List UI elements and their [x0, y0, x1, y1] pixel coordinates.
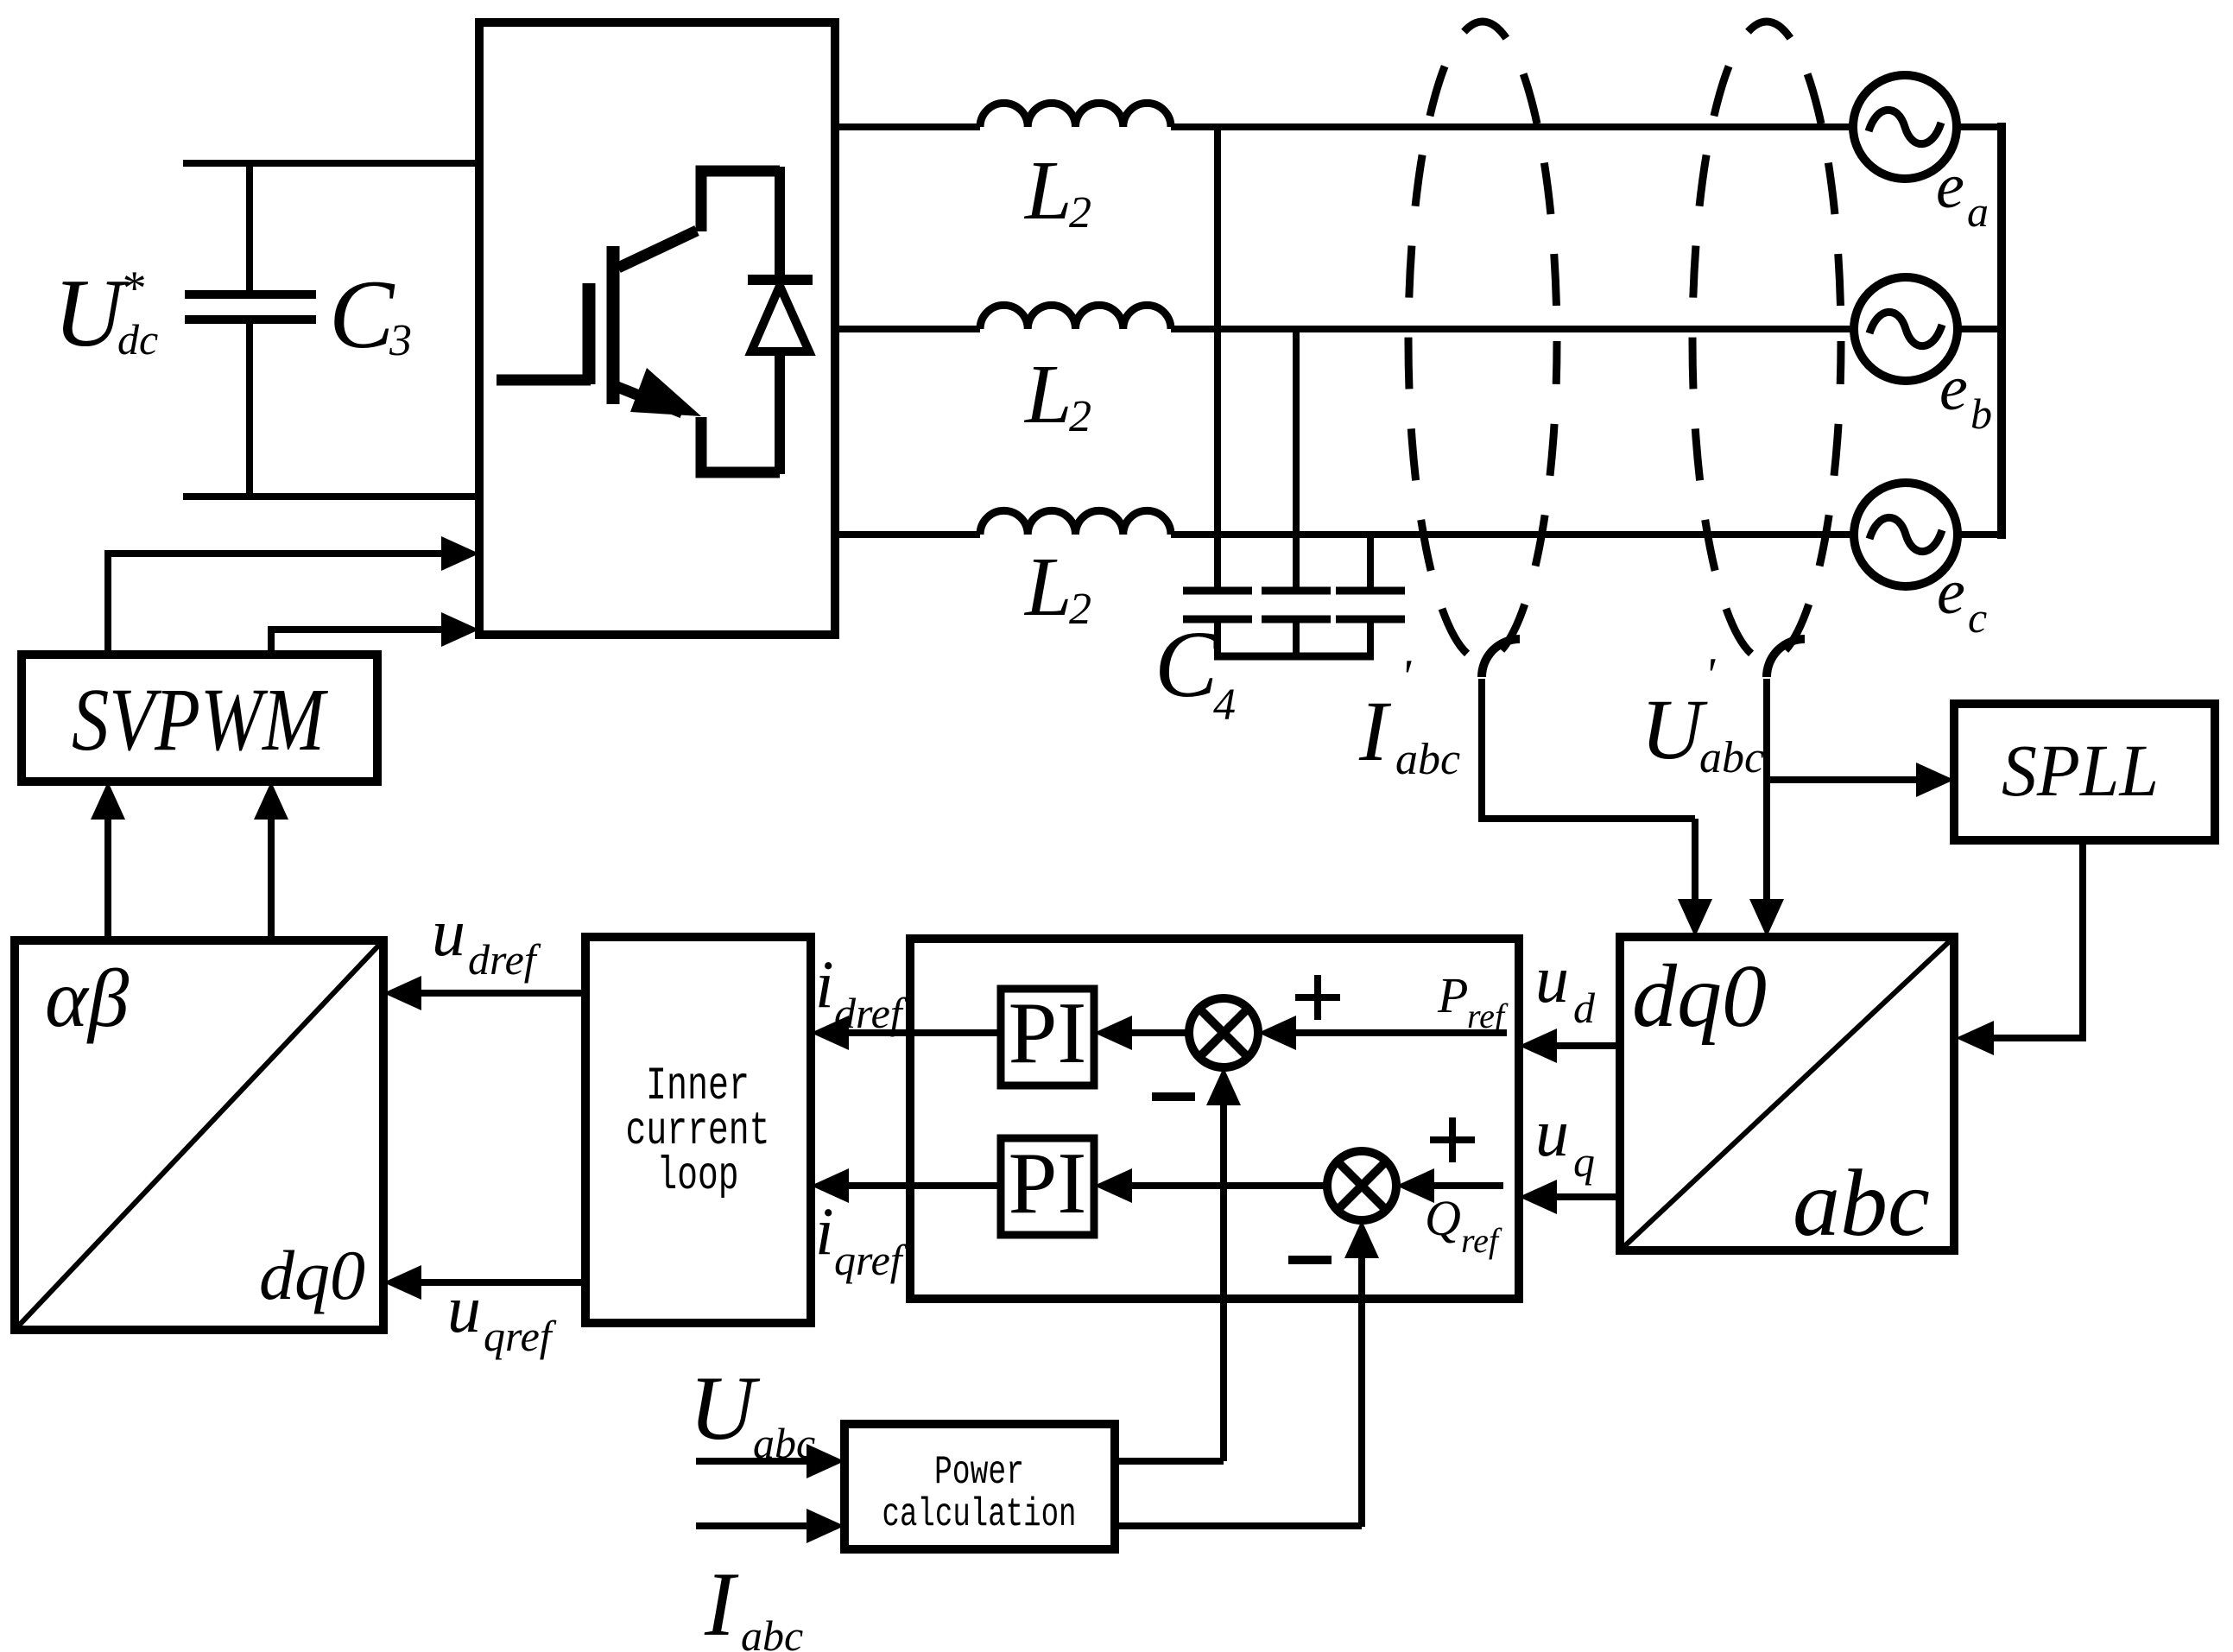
- svg-text:dref: dref: [834, 989, 908, 1037]
- plus sign S1: [1295, 994, 1340, 1001]
- capacitor C4 bank: [1183, 591, 1405, 656]
- wire P_ref to S1: [1268, 1029, 1507, 1036]
- inductor L2 phase A: [980, 103, 1171, 127]
- label i_dref: [815, 946, 908, 1037]
- svg-text:d: d: [1573, 984, 1596, 1032]
- wire C4 drop phase B: [1293, 329, 1300, 591]
- wire phase B: [835, 326, 980, 332]
- svg-text:2: 2: [1069, 188, 1091, 237]
- svg-text:SPLL: SPLL: [2002, 729, 2159, 812]
- svg-text:': ': [1401, 650, 1412, 704]
- label U_abc: [689, 1358, 815, 1467]
- inductor L2 phase B: [980, 305, 1171, 329]
- wire phase A: [835, 123, 980, 130]
- label i_qref: [815, 1193, 908, 1284]
- wire alpha-beta to SVPWM 2: [268, 790, 275, 940]
- svg-text:Q: Q: [1425, 1190, 1461, 1246]
- label C4: [1154, 611, 1236, 730]
- svg-text:': ': [1705, 649, 1716, 702]
- svg-text:abc: abc: [1395, 735, 1460, 784]
- svg-text:abc: abc: [753, 1419, 815, 1467]
- wire u_d: [1529, 1042, 1620, 1049]
- label e_b: [1939, 353, 1992, 438]
- svg-text:u: u: [1535, 1095, 1569, 1170]
- svg-text:P: P: [1437, 967, 1468, 1023]
- wire U_abc input: [696, 1458, 834, 1465]
- svg-text:q: q: [1573, 1137, 1595, 1186]
- svg-text:PI: PI: [1009, 984, 1087, 1082]
- svg-text:dq0: dq0: [259, 1236, 365, 1314]
- AC source e_c: [1854, 483, 1958, 586]
- minus sign S2: [1288, 1256, 1332, 1264]
- svg-text:4: 4: [1213, 680, 1236, 730]
- wire u_q: [1529, 1193, 1620, 1200]
- svg-text:abc: abc: [1699, 733, 1764, 782]
- svg-text:calculation: calculation: [882, 1492, 1077, 1537]
- svg-text:e: e: [1937, 557, 1965, 628]
- wire U'abc down arrow: [1763, 679, 1770, 927]
- svg-text:C: C: [1154, 611, 1219, 717]
- svg-text:*: *: [120, 262, 144, 315]
- outer power-loop box: [910, 939, 1519, 1299]
- transformer ellipse 2 (dashed): [1692, 22, 1841, 661]
- wire I'abc probe run: [1482, 679, 1695, 819]
- wire u_dref: [394, 990, 585, 997]
- svg-text:c: c: [1968, 593, 1987, 642]
- wire Q output: [1115, 1522, 1362, 1529]
- inductor L2 phase C: [980, 510, 1171, 535]
- svg-text:qref: qref: [834, 1236, 908, 1284]
- transform block alpha-beta / dq0: [15, 940, 383, 1330]
- label Inner current loop: [626, 1060, 770, 1203]
- wire SPLL to dq0/abc: [1966, 840, 2083, 1038]
- probe hook I'abc: [1482, 639, 1520, 677]
- svg-text:e: e: [1936, 151, 1964, 222]
- label e_a: [1936, 151, 1989, 236]
- minus sign S1: [1152, 1092, 1195, 1101]
- capacitor C3: [185, 163, 316, 497]
- transformer ellipse 1 (dashed): [1408, 22, 1557, 661]
- svg-text:dc: dc: [117, 315, 158, 364]
- svg-text:dq0: dq0: [1632, 946, 1767, 1046]
- label Power calculation: [882, 1450, 1077, 1537]
- AC source e_a: [1853, 75, 1957, 179]
- svg-text:a: a: [1967, 187, 1989, 236]
- svg-text:SVPWM: SVPWM: [72, 670, 328, 769]
- label Q_ref: [1425, 1190, 1502, 1260]
- summing junction S2: [1327, 1151, 1396, 1220]
- svg-text:L: L: [1023, 348, 1072, 441]
- label e_c: [1937, 557, 1987, 642]
- svg-text:U: U: [689, 1358, 761, 1459]
- wire U'abc to SPLL: [1767, 776, 1944, 783]
- wire PI1 input: [1104, 1029, 1191, 1036]
- diode D1: [748, 167, 813, 474]
- svg-text:u: u: [447, 1271, 481, 1346]
- svg-text:αβ: αβ: [45, 953, 130, 1044]
- svg-text:u: u: [432, 895, 465, 970]
- wire P feedback vertical: [1220, 1078, 1227, 1461]
- svg-text:i: i: [815, 1193, 834, 1269]
- wire alpha-beta to SVPWM 1: [104, 790, 111, 940]
- wire DC- rail: [183, 493, 479, 500]
- svg-text:2: 2: [1069, 585, 1091, 634]
- wire P output: [1115, 1458, 1224, 1465]
- wire i_qref: [821, 1182, 1001, 1189]
- svg-text:ref: ref: [1461, 1221, 1502, 1260]
- label L2 phase B: [1023, 348, 1091, 441]
- PI controller PI2: [1001, 1138, 1094, 1235]
- wire Q feedback vertical: [1358, 1231, 1365, 1527]
- wire Q_ref to S2: [1407, 1182, 1503, 1189]
- svg-text:b: b: [1970, 389, 1992, 438]
- svg-text:ref: ref: [1467, 997, 1509, 1035]
- svg-text:abc: abc: [741, 1611, 803, 1652]
- AC source e_b: [1854, 277, 1958, 381]
- label I'abc: [1358, 650, 1460, 784]
- label I_abc: [704, 1554, 803, 1652]
- transistor Q1 (IGBT with antiparallel diode): [497, 171, 780, 472]
- svg-text:I: I: [704, 1554, 739, 1652]
- label U'abc: [1641, 649, 1764, 782]
- label L2 phase A: [1023, 144, 1091, 237]
- wire grid bus: [1997, 123, 2006, 539]
- svg-text:dref: dref: [468, 935, 541, 984]
- transform block dq0 / abc: [1620, 937, 1954, 1250]
- svg-text:U: U: [1641, 681, 1708, 777]
- wire i_dref: [821, 1029, 1001, 1036]
- plus sign S2: [1430, 1136, 1475, 1143]
- label u_dref: [432, 895, 541, 984]
- svg-text:loop: loop: [657, 1150, 739, 1203]
- probe hook U'abc: [1767, 639, 1805, 677]
- svg-text:I: I: [1358, 683, 1392, 779]
- svg-text:u: u: [1535, 941, 1569, 1016]
- svg-text:2: 2: [1069, 392, 1091, 441]
- svg-text:L: L: [1023, 541, 1072, 634]
- wire SVPWM gate 2: [271, 630, 471, 655]
- label L2 phase C: [1023, 541, 1091, 634]
- wire phase C: [835, 531, 980, 538]
- inner current loop block: [585, 937, 811, 1323]
- label u_d: [1535, 941, 1596, 1032]
- wire I'abc down arrow: [1692, 819, 1698, 927]
- wire DC+ rail: [183, 160, 479, 167]
- label u_qref: [447, 1271, 557, 1360]
- wire SVPWM gate 1: [108, 554, 471, 655]
- svg-text:Power: Power: [934, 1450, 1024, 1495]
- wire I_abc input: [696, 1522, 834, 1529]
- power calculation block: [844, 1424, 1115, 1549]
- SPLL block: [1954, 704, 2215, 840]
- label u_q: [1535, 1095, 1595, 1186]
- summing junction S1: [1189, 998, 1258, 1067]
- svg-text:L: L: [1023, 144, 1072, 237]
- wire u_qref: [394, 1279, 585, 1286]
- svg-text:e: e: [1939, 353, 1968, 424]
- wire C4 drop phase C: [1367, 535, 1374, 591]
- SVPWM block: [22, 655, 377, 782]
- svg-text:i: i: [815, 946, 834, 1022]
- PI controller PI1: [1001, 989, 1094, 1086]
- svg-text:qref: qref: [484, 1312, 557, 1360]
- label U*dc: [54, 260, 158, 367]
- svg-text:abc: abc: [1793, 1150, 1930, 1256]
- label P_ref: [1437, 967, 1509, 1035]
- svg-text:PI: PI: [1009, 1135, 1087, 1232]
- wire PI2 input: [1104, 1182, 1327, 1189]
- svg-text:3: 3: [389, 316, 412, 365]
- wire C4 drop phase A: [1214, 127, 1221, 591]
- inverter box U1: [479, 22, 835, 635]
- label C3: [329, 261, 412, 369]
- svg-text:C: C: [329, 261, 395, 369]
